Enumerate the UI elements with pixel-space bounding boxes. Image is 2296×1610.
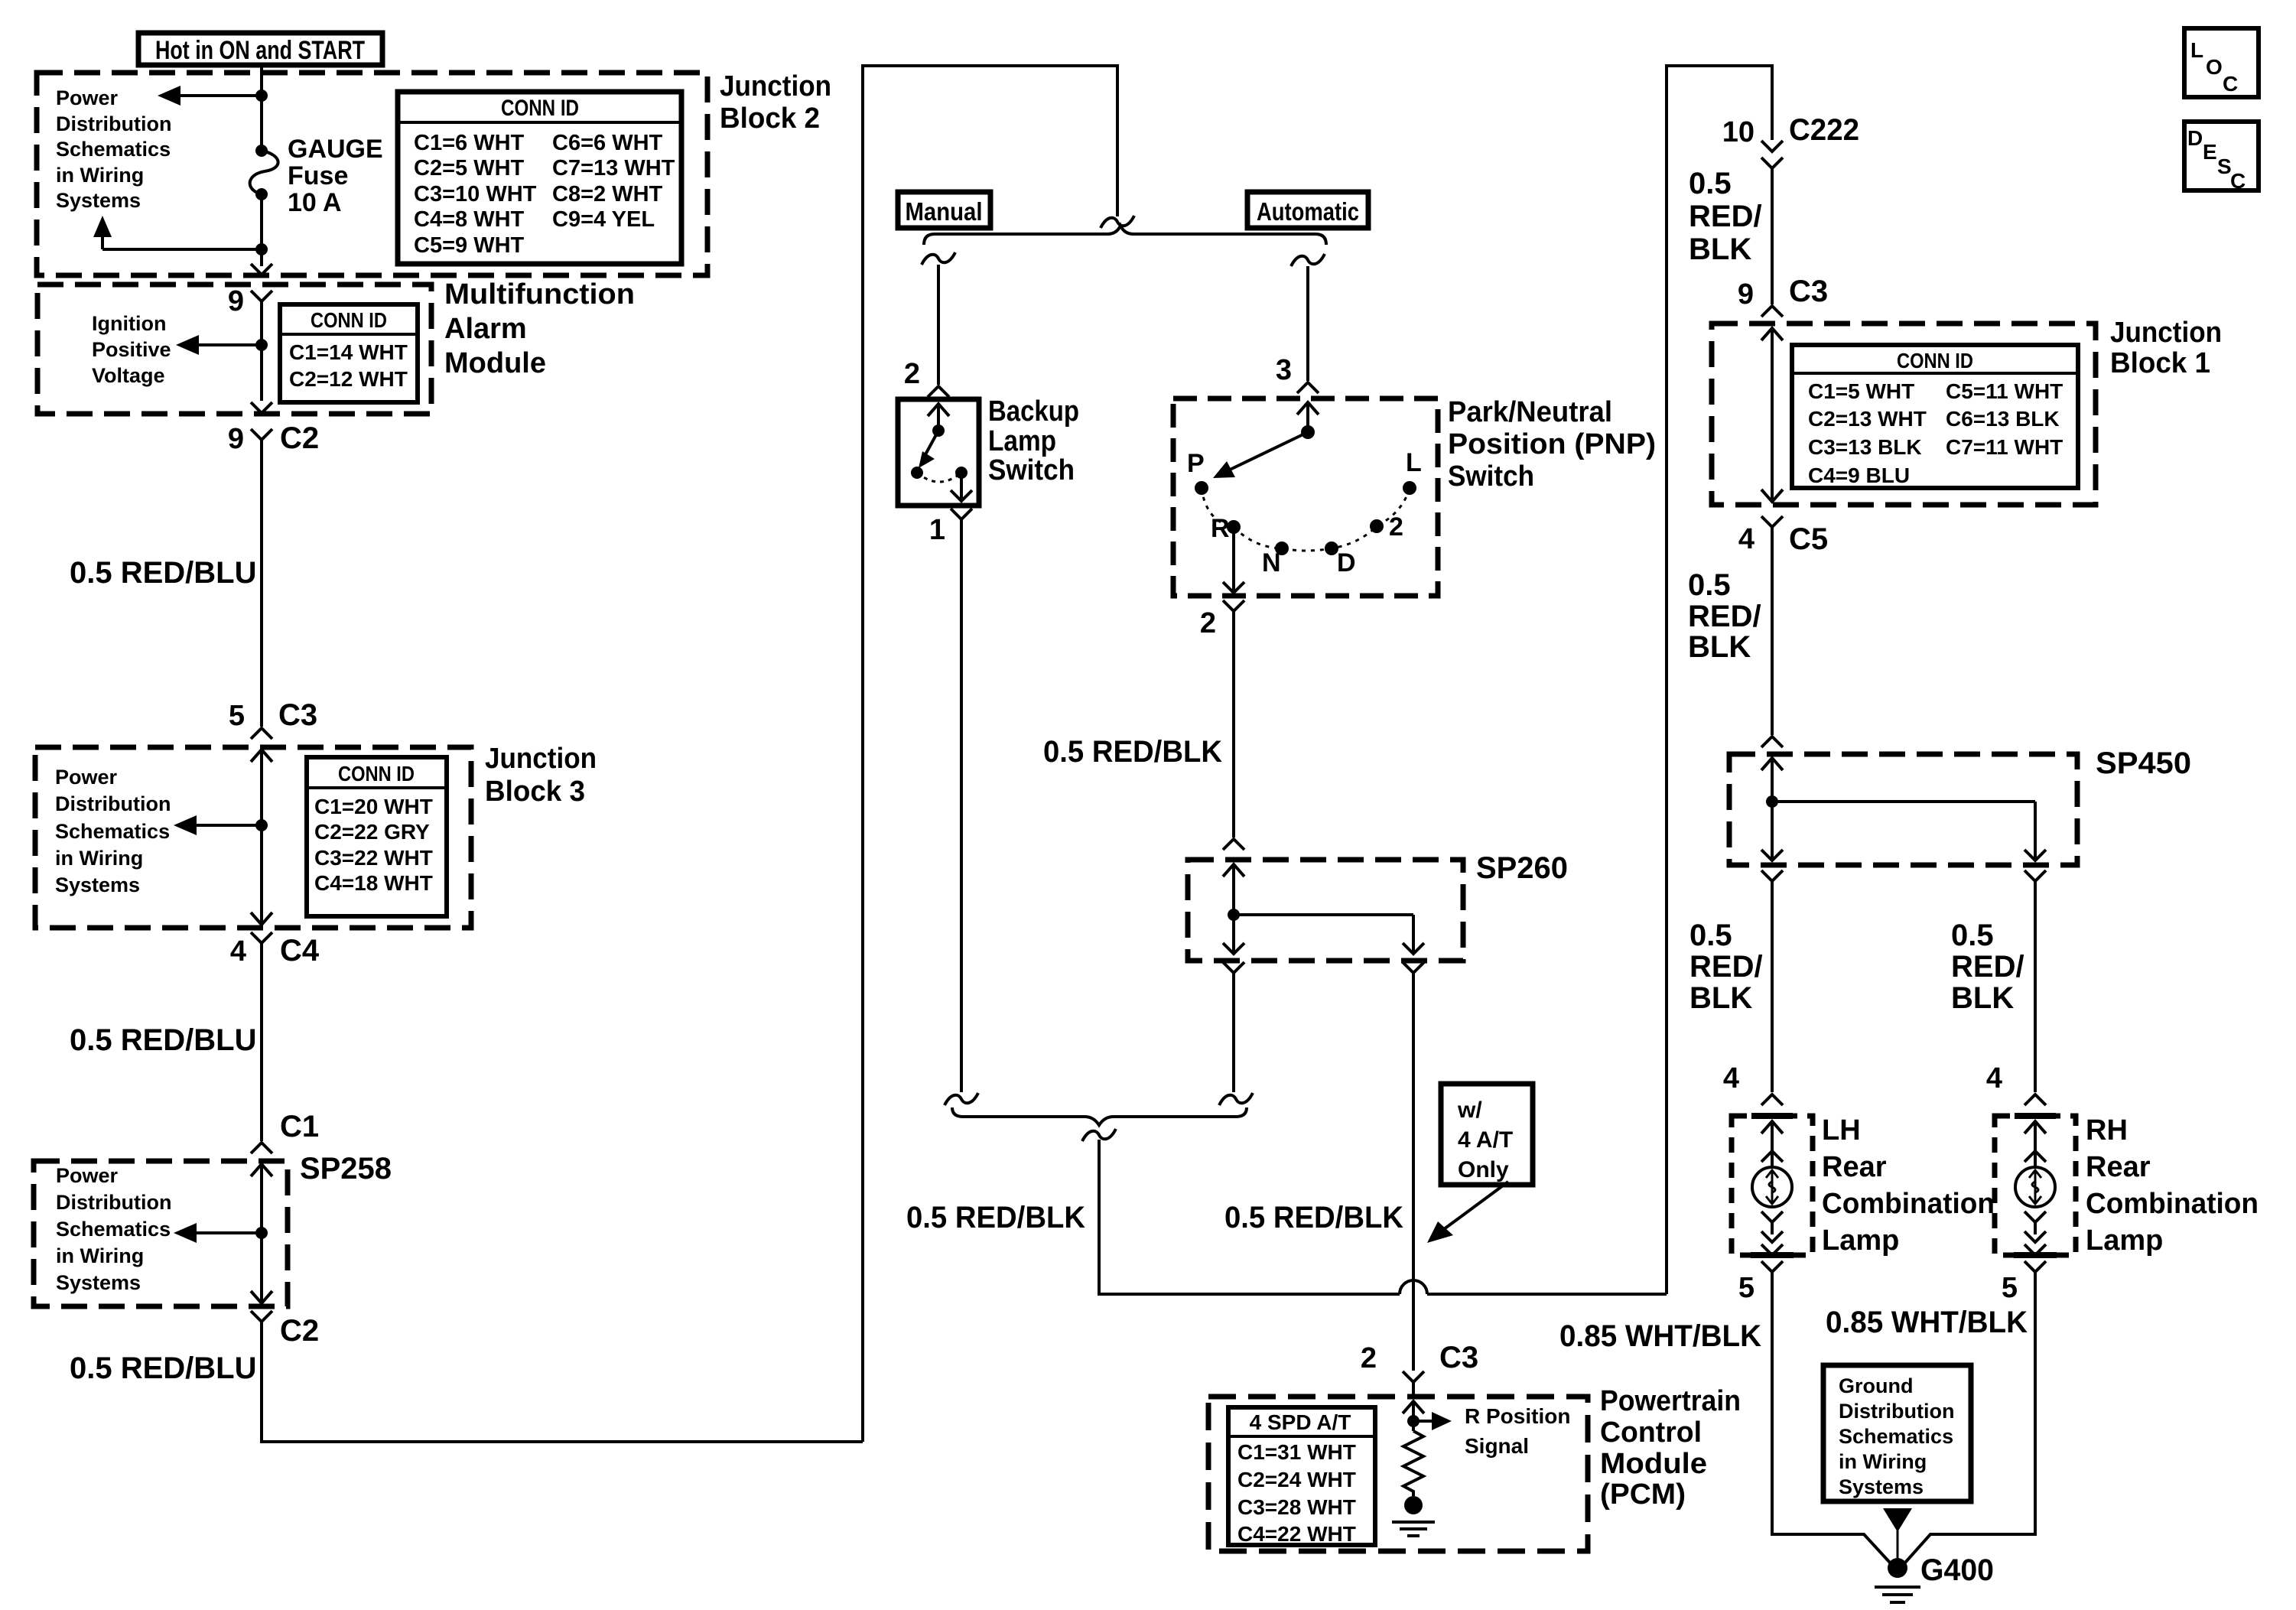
svg-text:Power: Power [56,1164,119,1187]
svg-text:Backup: Backup [988,395,1079,428]
break: feed tilde [1101,216,1134,228]
svg-text:Switch: Switch [988,454,1075,486]
label Ignition Positive Voltage [92,312,171,387]
svg-text:0.5 RED/BLK: 0.5 RED/BLK [1224,1201,1403,1234]
wire: 0.5 RED/BLU run 1 [260,440,263,727]
svg-text:4: 4 [1723,1062,1739,1094]
arrow to Ignition Positive Voltage [176,335,262,355]
svg-text:C1=6 WHT: C1=6 WHT [414,131,525,155]
svg-text:Fuse: Fuse [288,161,348,190]
svg-text:C2: C2 [280,421,319,455]
wire: C5 to SP450 [1771,527,1774,735]
JB1: entry arrow [1761,328,1783,340]
svg-text:2: 2 [1200,607,1216,639]
brace: collector [952,1107,1247,1125]
connector: LH lamp pin 4 [1723,1062,1783,1105]
label Junction Block 1 [2110,317,2222,379]
junction block 2 dashed box [37,73,707,275]
svg-text:in Wiring: in Wiring [1839,1450,1927,1473]
break: tilde below brace [1082,1129,1116,1141]
node: junction dot B [255,243,268,255]
connector: SP260 entry [1223,839,1244,850]
svg-text:SP258: SP258 [300,1152,392,1186]
label Power Distribution Schematics in Wiring Systems (JB2) [56,86,171,212]
svg-text:L: L [1406,448,1422,477]
connector: SP258 entry arrow [251,1164,272,1176]
PNP: selector arrow to P [1213,432,1308,478]
svg-text:S: S [2217,154,2232,178]
connector: SP258 exit arrow [251,1291,272,1303]
svg-text:C4=22 WHT: C4=22 WHT [1237,1522,1356,1546]
connector: PNP pin 2 [1200,600,1244,639]
LH lamp: bulb [1752,1167,1792,1207]
label 0.85 WHT/BLK (LH) [1559,1319,1761,1353]
svg-text:Switch: Switch [1448,460,1534,493]
svg-text:C3: C3 [1789,275,1828,308]
svg-text:LH: LH [1822,1114,1861,1147]
label 0.5 RED/BLK (C222) [1689,167,1762,266]
node: junction dot A [255,89,268,102]
svg-text:Rear: Rear [1822,1151,1887,1183]
svg-text:C5: C5 [1789,522,1828,556]
svg-text:Power: Power [55,766,118,789]
PNP: entry arrow and common [1297,402,1319,439]
arrow from w/4AT box to wire [1427,1182,1508,1243]
svg-text:5: 5 [1738,1272,1755,1304]
box Manual [898,192,990,228]
wire: backup pin1 down [960,519,963,1092]
wire: brace output down and right [1099,1140,1667,1294]
svg-text:C4=8 WHT: C4=8 WHT [414,207,525,232]
SP260: entry arrow [1223,864,1244,877]
svg-text:Positive: Positive [92,338,171,361]
svg-text:C5=9 WHT: C5=9 WHT [414,233,525,258]
svg-text:D: D [1337,548,1356,577]
fuse GAUGE 10A [250,145,278,200]
svg-text:3: 3 [1276,354,1292,386]
svg-text:Schematics: Schematics [55,820,170,843]
node: junction dot SP258 [255,1227,268,1239]
label Power Distribution Schematics in Wiring Systems (SP258) [56,1164,171,1294]
label 0.5 RED/BLK (C5) [1688,568,1761,664]
backup switch: contacts and arc [911,467,968,482]
svg-text:Automatic: Automatic [1257,197,1359,226]
svg-text:C4: C4 [280,934,320,968]
SP260: output arrows [1223,943,1424,954]
svg-text:R Position: R Position [1465,1404,1570,1428]
PNP: position dots [1195,481,1416,555]
PCM: entry arrow [1403,1401,1424,1431]
svg-text:N: N [1262,548,1281,577]
svg-text:Systems: Systems [1839,1475,1924,1498]
svg-text:CONN ID: CONN ID [501,96,579,121]
label Power Distribution Schematics in Wiring Systems (JB3) [55,766,171,896]
wire: JB3 internal [260,750,263,925]
svg-text:1: 1 [929,514,945,546]
svg-text:C222: C222 [1789,113,1859,147]
backup lamp switch box [898,399,979,506]
wire: into PCM [1412,1382,1415,1397]
svg-text:10 A: 10 A [288,188,342,217]
svg-text:RED/: RED/ [1689,950,1763,984]
svg-text:w/: w/ [1457,1098,1482,1123]
backup switch: entry arrow and common [928,404,949,437]
box: Hot in ON and START [138,33,382,65]
svg-text:Module: Module [444,347,546,379]
label 0.5 RED/BLU (2) [70,1023,257,1057]
svg-text:0.5: 0.5 [1688,568,1731,602]
svg-text:Schematics: Schematics [1839,1425,1953,1448]
label 0.5 RED/BLK (RH) [1951,919,2024,1015]
connector: 4 C5 [1738,516,1828,556]
connector: 10 C222 [1722,113,1859,168]
svg-text:in Wiring: in Wiring [56,164,144,187]
SP258 dashed box [34,1161,288,1306]
wire: automatic branch [1306,266,1309,381]
connector: backup pin 1 [929,509,972,546]
svg-text:0.5 RED/BLU: 0.5 RED/BLU [70,1351,257,1385]
svg-text:C2: C2 [280,1314,319,1348]
svg-text:Alarm: Alarm [444,313,527,345]
svg-text:Rear: Rear [2086,1151,2151,1183]
svg-text:Junction: Junction [485,743,597,775]
svg-text:Junction: Junction [2110,317,2222,349]
svg-text:in Wiring: in Wiring [56,1244,144,1267]
svg-text:RED/: RED/ [1951,950,2024,984]
svg-text:E: E [2203,140,2217,164]
wire: left column to bottom rail [262,1322,863,1442]
svg-text:C3=10 WHT: C3=10 WHT [414,182,537,207]
connector: MAM exit arrow [251,402,272,413]
label Junction Block 2 [720,70,831,135]
SP450 dashed box [1729,754,2077,865]
arrow R Position Signal [1413,1412,1452,1430]
svg-text:Only: Only [1458,1157,1509,1182]
svg-text:BLK: BLK [1951,981,2014,1015]
label Junction Block 3 [485,743,597,808]
wire: 0.5 RED/BLU run 2 [260,943,263,1141]
break: tilde above brace left [945,1093,978,1105]
connector: JB3 exit arrow [251,912,272,925]
svg-text:4 A/T: 4 A/T [1458,1127,1513,1153]
label RH Rear Combination Lamp [2086,1114,2259,1257]
RH lamp: entry arrow [2024,1121,2046,1167]
svg-text:2: 2 [1361,1342,1377,1374]
RH lamp: exit tee-bar [2014,1252,2057,1258]
ground distribution box [1823,1365,1971,1501]
label Powertrain Control Module (PCM) [1600,1385,1741,1511]
label GAUGE Fuse 10 A [288,135,383,217]
connector: 2 C3 PCM [1361,1341,1478,1382]
connector: RH lamp pin 5 [2002,1261,2046,1304]
svg-text:C8=2 WHT: C8=2 WHT [552,182,663,207]
wire: SP260 left down [1232,973,1235,1092]
multifunction alarm module dashed box [37,285,431,414]
junction block 3 dashed box [35,747,471,928]
svg-text:Signal: Signal [1465,1434,1529,1458]
PNP switch dashed box [1173,398,1438,596]
LH lamp: entry arrow [1761,1121,1783,1167]
svg-text:Power: Power [56,86,119,109]
wire: C222 to C3 [1771,168,1774,304]
svg-text:4: 4 [1738,523,1755,555]
SP260 dashed box [1188,860,1463,961]
svg-text:0.5: 0.5 [1689,167,1732,200]
node: PCM junction [1407,1415,1420,1427]
label 0.5 RED/BLK (right) [1224,1201,1403,1234]
svg-text:0.5: 0.5 [1689,919,1732,952]
svg-text:C3=28 WHT: C3=28 WHT [1237,1495,1356,1519]
connector: SP450 left out [1761,870,1783,881]
connector: 4 C4 [230,932,320,968]
svg-text:10: 10 [1722,116,1755,148]
svg-text:Block 2: Block 2 [720,102,820,135]
wire: left rail up and over [863,66,1117,1442]
connector: PNP pin 3 [1276,354,1319,393]
arrow: ground box to G400 [1883,1508,1912,1559]
svg-text:C2=13 WHT: C2=13 WHT [1808,407,1927,431]
svg-text:0.5 RED/BLU: 0.5 RED/BLU [70,1023,257,1057]
svg-text:GAUGE: GAUGE [288,135,383,164]
svg-text:O: O [2206,55,2223,79]
svg-text:C4=18 WHT: C4=18 WHT [314,871,433,895]
break: manual branch tilde [922,252,955,265]
svg-text:C3=13 BLK: C3=13 BLK [1808,435,1922,459]
svg-text:G400: G400 [1920,1553,1994,1587]
connector: 9 C3 [1738,275,1828,317]
svg-text:Ignition: Ignition [92,312,166,335]
svg-text:CONN ID: CONN ID [311,308,387,332]
svg-text:CONN ID: CONN ID [338,762,415,785]
SP450: entry arrow [1761,758,1783,770]
junction block 1 dashed box [1712,324,2096,505]
connector: SP450 right out [2024,870,2046,881]
conn id table JB3 [307,757,447,916]
svg-text:2: 2 [904,358,920,390]
svg-text:Distribution: Distribution [1839,1400,1954,1423]
svg-text:C: C [2230,169,2246,193]
svg-text:Junction: Junction [720,70,831,102]
svg-text:9: 9 [1738,278,1754,311]
label 0.5 RED/BLK (top) [1043,735,1222,769]
node: junction dot MAM [255,339,268,351]
wire: SP450 to RH lamp [2034,881,2037,1092]
svg-text:Block 1: Block 1 [2110,347,2210,379]
svg-text:C5=11 WHT: C5=11 WHT [1946,379,2063,403]
svg-text:Ground: Ground [1839,1374,1913,1397]
svg-text:Lamp: Lamp [1822,1225,1899,1257]
svg-text:C3: C3 [278,698,317,732]
svg-text:Systems: Systems [55,873,140,896]
wire: RH ground run [1905,1272,2035,1563]
svg-text:4: 4 [1986,1062,2002,1094]
node: junction dot JB3 [255,819,268,831]
svg-text:BLK: BLK [1688,630,1751,664]
svg-text:Control: Control [1600,1416,1702,1449]
svg-text:BLK: BLK [1689,981,1752,1015]
svg-text:C: C [2223,72,2238,96]
svg-text:C2=22 GRY: C2=22 GRY [314,820,430,844]
label 0.85 WHT/BLK (RH) [1826,1306,2028,1339]
break: automatic branch tilde [1291,254,1325,266]
label SP260 [1476,851,1568,885]
wire: SP258 internal [260,1164,263,1303]
LH lamp: output [1761,1212,1783,1255]
connector: SP260 right out [1403,962,1424,973]
box Automatic [1247,192,1368,228]
svg-text:9: 9 [228,423,244,455]
label Backup Lamp Switch [988,395,1079,486]
connector: LH lamp pin 5 [1738,1261,1783,1304]
svg-text:Module: Module [1600,1448,1707,1480]
backup switch: output arrow [951,473,972,501]
svg-text:0.5 RED/BLK: 0.5 RED/BLK [906,1201,1085,1234]
LH rear combination lamp dashed box [1732,1116,1813,1255]
svg-text:C2=24 WHT: C2=24 WHT [1237,1468,1356,1491]
arrow up-left branch (JB2) [93,216,262,249]
wire: SP450 to LH lamp [1771,881,1774,1092]
svg-text:SP260: SP260 [1476,851,1568,885]
svg-text:C1=5 WHT: C1=5 WHT [1808,379,1914,403]
arrow to Power Distribution Schematics (SP258) [174,1223,262,1243]
wire: manual branch [937,265,940,385]
svg-text:in Wiring: in Wiring [55,847,143,870]
svg-text:CONN ID: CONN ID [1897,349,1973,372]
svg-text:Lamp: Lamp [2086,1225,2163,1257]
svg-text:Hot in ON and START: Hot in ON and START [155,36,365,65]
svg-text:Position (PNP): Position (PNP) [1448,428,1656,460]
wire: LH ground run [1772,1272,1890,1563]
connector: JB3 entry arrow [251,750,272,762]
svg-text:RED/: RED/ [1689,200,1762,233]
SP260: internal tee [1228,864,1413,951]
svg-text:C6=6 WHT: C6=6 WHT [552,131,663,155]
svg-text:C1=31 WHT: C1=31 WHT [1237,1440,1356,1464]
svg-text:C7=11 WHT: C7=11 WHT [1946,435,2063,459]
LOC box [2184,28,2259,97]
svg-text:C1: C1 [280,1110,319,1143]
wire: SP260 right to PCM [1412,973,1415,1371]
svg-text:2: 2 [1389,512,1403,542]
SP450: internal tee [1766,758,2035,858]
wire: JB1 internal [1771,328,1774,499]
connector: 5 C3 [229,698,317,739]
svg-text:C4=9 BLU: C4=9 BLU [1808,463,1910,487]
box w/ 4 A/T Only [1441,1084,1533,1185]
svg-text:Multifunction: Multifunction [444,278,635,311]
svg-text:Systems: Systems [56,189,141,212]
RH lamp: output [2024,1212,2046,1255]
wire: fuse to lower junction [260,194,263,266]
resistor (pull-down) [1403,1431,1423,1496]
label R Position Signal [1465,1404,1570,1458]
conn id table JB2 [398,92,681,264]
svg-text:D: D [2187,126,2203,150]
svg-text:Powertrain: Powertrain [1600,1385,1741,1417]
svg-text:9: 9 [228,285,244,317]
svg-text:C9=4 YEL: C9=4 YEL [552,207,655,232]
svg-text:C2=5 WHT: C2=5 WHT [414,156,525,181]
svg-text:Lamp: Lamp [988,425,1056,457]
svg-text:Schematics: Schematics [56,1218,171,1241]
label 0.5 RED/BLK (LH) [1689,919,1763,1015]
svg-text:C6=13 BLK: C6=13 BLK [1946,407,2060,431]
label SP450 [2096,746,2191,780]
label SP258 [300,1152,392,1186]
svg-text:R: R [1211,514,1230,543]
label 0.5 RED/BLU (3) [70,1351,257,1385]
svg-text:P: P [1187,449,1205,478]
conn id table JB1 [1792,345,2078,488]
svg-text:5: 5 [2002,1272,2018,1304]
svg-text:Combination: Combination [1822,1188,1995,1220]
svg-text:0.5: 0.5 [1951,919,1994,952]
svg-text:Systems: Systems [56,1271,141,1294]
svg-text:0.85 WHT/BLK: 0.85 WHT/BLK [1559,1319,1761,1353]
svg-text:4: 4 [230,935,246,968]
svg-text:Distribution: Distribution [56,112,171,135]
ground G400 [1875,1553,1994,1602]
svg-text:L: L [2190,38,2203,62]
wire: right rail up and over [1667,66,1772,1294]
DESC box [2184,122,2259,193]
connector: 9 C2 [228,421,319,455]
connector: MAM pin 9 top [228,285,272,317]
svg-text:5: 5 [229,700,245,732]
label Park/Neutral Position (PNP) Switch [1448,396,1656,493]
svg-text:Distribution: Distribution [56,1191,171,1214]
LH lamp: entry tee-bar [1751,1113,1793,1119]
svg-text:(PCM): (PCM) [1600,1478,1686,1511]
arrow to Power Distribution Schematics (JB3) [174,815,262,835]
label Multifunction Alarm Module [444,278,635,379]
svg-text:Manual: Manual [906,197,983,226]
svg-text:BLK: BLK [1689,233,1751,266]
RH rear combination lamp dashed box [1995,1116,2076,1255]
svg-text:RH: RH [2086,1114,2128,1147]
connector: RH lamp pin 4 [1986,1062,2046,1105]
connector: C2 bottom [251,1311,319,1348]
svg-text:0.5 RED/BLK: 0.5 RED/BLK [1043,735,1222,769]
wire: PNP pin2 to SP260 [1232,611,1235,838]
svg-text:Combination: Combination [2086,1188,2259,1220]
RH lamp: entry tee-bar [2015,1113,2056,1119]
break: tilde above brace right [1219,1093,1253,1105]
conn id table MAM [280,304,418,402]
JB1: exit arrow [1761,490,1783,502]
label 0.5 RED/BLU (1) [70,556,257,590]
svg-text:4 SPD A/T: 4 SPD A/T [1250,1410,1351,1434]
connector: JB2 exit arrow [251,264,272,275]
brace: manual/automatic split [924,226,1326,245]
connector: SP450 entry [1761,737,1783,747]
SP450: output arrows [1761,850,2046,860]
RH lamp: bulb [2015,1167,2055,1207]
PNP: R output arrow [1223,527,1244,593]
svg-text:Schematics: Schematics [56,138,171,161]
svg-text:Park/Neutral: Park/Neutral [1448,396,1612,428]
connector: C1 [251,1110,319,1153]
svg-text:0.85 WHT/BLK: 0.85 WHT/BLK [1826,1306,2028,1339]
svg-text:C2=12 WHT: C2=12 WHT [289,367,408,391]
backup switch: moving contact arrow [919,431,938,468]
svg-text:Distribution: Distribution [55,792,171,815]
arrow to Power Distribution Schematics [158,86,262,106]
svg-text:SP450: SP450 [2096,746,2191,780]
conn id table 4 SPD A/T [1228,1407,1375,1546]
svg-text:Voltage: Voltage [92,364,165,387]
connector: SP260 left out [1223,962,1244,973]
